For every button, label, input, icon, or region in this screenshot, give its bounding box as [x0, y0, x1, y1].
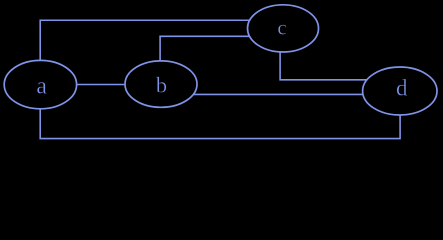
svg-text:a: a [36, 74, 47, 100]
svg-text:b: b [156, 72, 167, 97]
svg-text:c: c [277, 16, 286, 40]
svg-text:d: d [396, 75, 408, 100]
